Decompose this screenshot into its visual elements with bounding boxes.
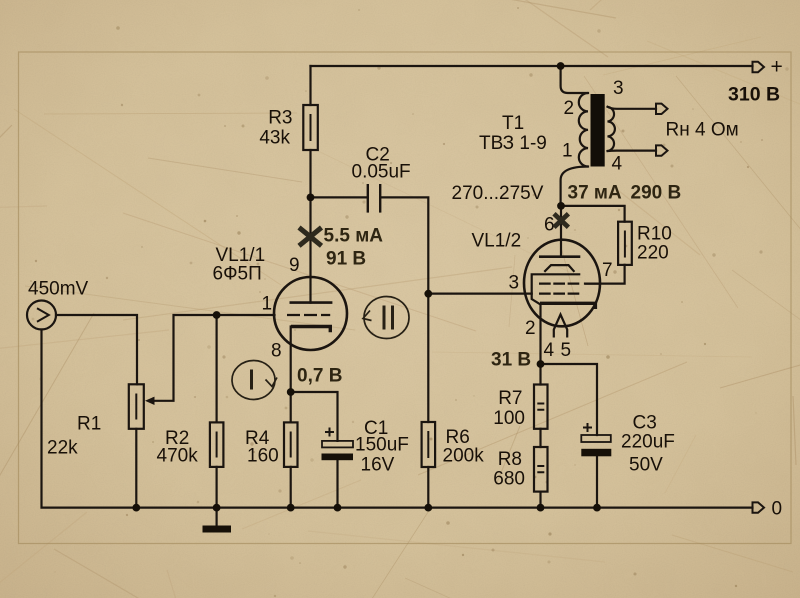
svg-text:5.5 мА: 5.5 мА bbox=[324, 226, 384, 247]
svg-text:50V: 50V bbox=[629, 455, 663, 476]
wire transformer secondary top lead bbox=[608, 107, 657, 109]
svg-text:9: 9 bbox=[289, 255, 300, 276]
wire transformer primary top lead bbox=[561, 66, 588, 93]
terminal 0 bbox=[753, 502, 765, 512]
capacitor C3 electrolytic bbox=[581, 423, 611, 456]
stage mark I circle bbox=[232, 361, 277, 400]
wire C2 right plate to grid column bbox=[380, 197, 428, 422]
wire transformer secondary bottom lead bbox=[608, 150, 657, 153]
svg-text:470k: 470k bbox=[157, 446, 199, 467]
svg-text:220: 220 bbox=[637, 243, 669, 264]
measurement mark X anode VL1/2 bbox=[554, 214, 568, 227]
svg-text:T1: T1 bbox=[502, 113, 524, 134]
drawing frame border bbox=[19, 52, 792, 544]
svg-text:R1: R1 bbox=[77, 414, 101, 435]
svg-text:4: 4 bbox=[544, 340, 555, 361]
wire R10 bottom to VL1/2 pin 7 bbox=[585, 265, 625, 284]
svg-text:100: 100 bbox=[493, 408, 525, 429]
wire R7 top lead bbox=[539, 364, 541, 385]
svg-text:150uF: 150uF bbox=[355, 435, 409, 456]
wire VL1/1 cathode lead bbox=[290, 327, 292, 393]
wire R8 bottom lead bbox=[539, 492, 541, 508]
resistor R8 bbox=[534, 447, 548, 492]
resistor R7 bbox=[534, 385, 548, 429]
wire C3 bottom lead bbox=[596, 456, 598, 507]
input source G1 450mV bbox=[27, 301, 56, 330]
wire R1 wiper to VL1/1 grid bbox=[150, 315, 275, 401]
wire VL1/2 anode lead bbox=[560, 205, 562, 256]
wire R6 bottom lead bbox=[427, 467, 429, 508]
transformer T1 core bbox=[591, 94, 605, 167]
svg-text:43k: 43k bbox=[259, 128, 290, 149]
wire input to R1 top bbox=[56, 315, 137, 384]
svg-text:ТВЗ 1-9: ТВЗ 1-9 bbox=[479, 133, 547, 154]
svg-text:R10: R10 bbox=[637, 224, 672, 245]
capacitor C2 bbox=[368, 184, 380, 213]
wire C1 bottom lead bbox=[336, 460, 338, 507]
svg-text:0: 0 bbox=[772, 499, 783, 520]
svg-text:3: 3 bbox=[509, 273, 520, 294]
svg-text:0.05uF: 0.05uF bbox=[352, 162, 411, 183]
wire bottom ground bus bbox=[42, 330, 753, 508]
transformer T1 primary winding bbox=[579, 93, 588, 167]
resistor R6 bbox=[422, 422, 436, 467]
svg-text:8: 8 bbox=[271, 341, 282, 362]
svg-text:2: 2 bbox=[564, 98, 575, 119]
wire R4 top lead bbox=[290, 392, 292, 422]
svg-text:310 В: 310 В bbox=[728, 84, 780, 106]
svg-text:31 В: 31 В bbox=[491, 350, 531, 371]
wire VL1/2 cathode pin 2 lead bbox=[539, 305, 541, 364]
svg-text:22k: 22k bbox=[47, 438, 78, 459]
resistor R10 bbox=[618, 222, 632, 265]
svg-text:160: 160 bbox=[247, 446, 279, 467]
svg-text:R7: R7 bbox=[498, 388, 522, 409]
svg-text:91 В: 91 В bbox=[326, 249, 366, 270]
resistor R4 bbox=[284, 422, 298, 467]
potentiometer R1 bbox=[129, 384, 155, 429]
wire node A to C2 left plate bbox=[311, 196, 368, 198]
tube VL1/2 pentode bbox=[524, 240, 600, 338]
wire node B to R10 top bbox=[561, 206, 625, 222]
svg-text:220uF: 220uF bbox=[621, 432, 675, 453]
svg-text:C3: C3 bbox=[633, 413, 657, 434]
resistor R3 bbox=[303, 105, 318, 150]
wire R3 bottom lead to anode node bbox=[309, 150, 311, 197]
wire top supply bus bbox=[311, 65, 753, 67]
svg-text:680: 680 bbox=[493, 469, 525, 490]
svg-text:R3: R3 bbox=[268, 108, 292, 129]
svg-text:0,7 В: 0,7 В bbox=[297, 366, 342, 387]
svg-text:290 В: 290 В bbox=[631, 183, 682, 204]
wire R2 bottom lead bbox=[216, 467, 218, 508]
wire R7 R8 middle link bbox=[539, 429, 541, 447]
tube VL1/1 triode bbox=[274, 277, 347, 350]
wire R2 top lead bbox=[216, 315, 218, 422]
wire cathode node to C3 bbox=[541, 364, 598, 435]
svg-text:+: + bbox=[771, 56, 783, 79]
capacitor C1 electrolytic bbox=[322, 428, 354, 461]
measurement mark X anode VL1/1 bbox=[299, 228, 322, 246]
svg-text:VL1/2: VL1/2 bbox=[472, 231, 522, 252]
ground bbox=[203, 526, 232, 533]
svg-text:16V: 16V bbox=[361, 455, 395, 476]
svg-text:Rн 4 Ом: Rн 4 Ом bbox=[666, 120, 739, 141]
svg-text:3: 3 bbox=[613, 78, 624, 99]
svg-text:1: 1 bbox=[262, 294, 273, 315]
wire transformer primary bottom lead bbox=[561, 167, 588, 206]
svg-text:6Ф5П: 6Ф5П bbox=[213, 264, 262, 285]
svg-text:37 мА: 37 мА bbox=[568, 183, 622, 204]
svg-text:1: 1 bbox=[562, 141, 573, 162]
svg-text:4: 4 bbox=[612, 154, 623, 175]
wire R3 top lead bbox=[309, 66, 311, 105]
wire grid column to VL1/2 grid pin 3 bbox=[428, 293, 531, 295]
svg-text:270...275V: 270...275V bbox=[452, 183, 544, 204]
transformer T1 secondary winding bbox=[608, 107, 615, 151]
wire R1 bottom lead bbox=[135, 429, 137, 508]
resistor R2 bbox=[210, 422, 224, 467]
output terminal upper bbox=[656, 104, 668, 114]
wire R4 bottom lead bbox=[290, 467, 292, 508]
stage mark II circle bbox=[363, 297, 409, 339]
wire ground stub bbox=[216, 508, 218, 526]
svg-text:R8: R8 bbox=[498, 449, 522, 470]
output terminal lower bbox=[656, 145, 668, 155]
svg-text:2: 2 bbox=[525, 318, 536, 339]
terminal + 310V bbox=[753, 62, 765, 72]
svg-text:450mV: 450mV bbox=[28, 279, 89, 300]
svg-text:5: 5 bbox=[561, 340, 572, 361]
svg-text:7: 7 bbox=[602, 260, 613, 281]
junction node dots bbox=[132, 62, 600, 511]
wire VL1/1 anode lead bbox=[309, 197, 311, 302]
svg-text:200k: 200k bbox=[443, 446, 485, 467]
wire cathode node to C1 bbox=[291, 392, 338, 441]
